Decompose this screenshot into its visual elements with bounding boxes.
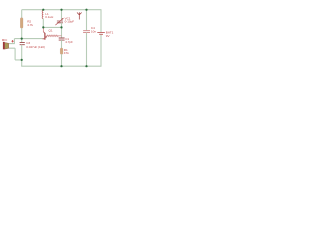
node top L1 xyxy=(42,9,44,11)
wire mid branch middle xyxy=(61,23,63,38)
wire mid branch below C1 xyxy=(61,40,63,48)
wire mic top stub xyxy=(9,39,15,44)
inductor L1 xyxy=(42,10,43,18)
mic plus sign xyxy=(11,40,14,43)
node bottom R1 xyxy=(60,65,62,67)
svg-text:MIC: MIC xyxy=(2,38,8,42)
wire L1 to junction xyxy=(42,19,44,28)
wire right rail upper xyxy=(100,9,102,32)
wire bottom rail xyxy=(21,65,101,67)
wire left rail lower xyxy=(21,45,23,66)
capacitor C4 xyxy=(83,31,90,33)
wire base horizontal xyxy=(14,38,42,40)
node bottom C4 xyxy=(85,65,87,67)
resistor R2 xyxy=(20,18,23,29)
resistor zigzag emitter xyxy=(47,35,62,37)
wire right rail lower xyxy=(100,34,102,66)
svg-text:10n: 10n xyxy=(91,29,96,33)
wire coupling horizontal xyxy=(43,26,61,28)
svg-text:0-10pF: 0-10pF xyxy=(65,20,75,24)
capacitor C1 xyxy=(59,38,65,40)
wire mid branch bottom xyxy=(61,54,63,66)
node top C4 xyxy=(85,9,87,11)
node tank left xyxy=(42,26,44,28)
svg-text:4.7pF: 4.7pF xyxy=(65,40,73,44)
svg-text:4.7k: 4.7k xyxy=(27,23,33,27)
wire top rail xyxy=(22,9,101,11)
node mic ground xyxy=(21,59,23,61)
wire C4 branch lower xyxy=(86,33,88,67)
svg-text:Q1: Q1 xyxy=(49,29,53,33)
svg-text:47k: 47k xyxy=(64,51,69,55)
wire left rail upper xyxy=(21,10,23,18)
svg-text:0.047uF (1k0): 0.047uF (1k0) xyxy=(26,45,45,49)
svg-text:0.1uH: 0.1uH xyxy=(45,15,53,19)
battery BAT1 xyxy=(97,32,105,34)
wire mic bottom stub xyxy=(9,48,22,60)
node tank right xyxy=(60,26,62,28)
variable capacitor VC1 xyxy=(57,21,63,23)
transistor Q1 xyxy=(42,28,44,32)
wire mid branch top xyxy=(61,10,63,20)
antenna xyxy=(77,12,82,19)
node top VC1 xyxy=(60,9,62,11)
capacitor C3 xyxy=(20,43,25,45)
wire left rail mid xyxy=(21,28,23,42)
node base junction xyxy=(21,38,23,40)
wire C4 branch upper xyxy=(86,10,88,31)
resistor R1 xyxy=(60,48,63,54)
